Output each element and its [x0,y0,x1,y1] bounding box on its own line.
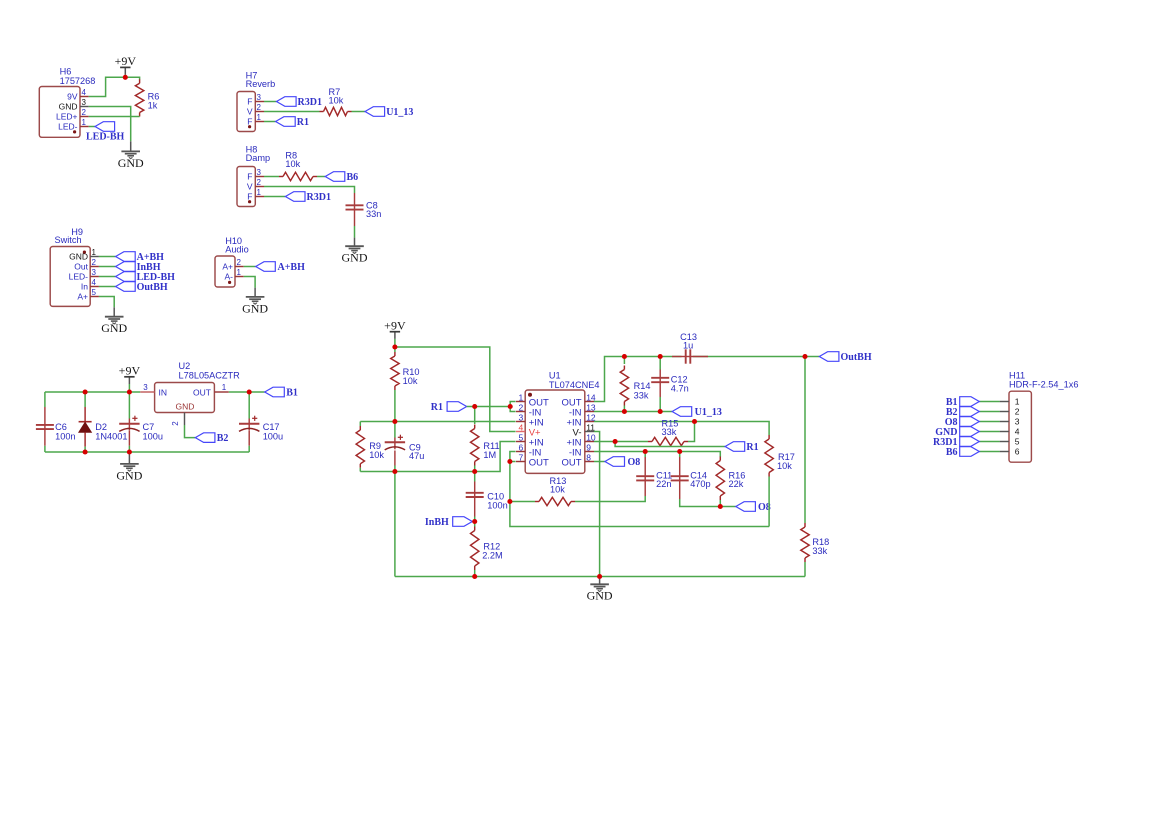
svg-text:2: 2 [237,258,242,267]
svg-text:A+: A+ [222,262,233,272]
svg-text:+9V: +9V [119,363,141,377]
svg-text:R3D1: R3D1 [298,97,322,108]
svg-text:100u: 100u [263,432,283,442]
svg-text:100n: 100n [487,501,507,511]
svg-text:B2: B2 [217,433,229,444]
svg-text:5: 5 [1015,437,1020,447]
svg-text:R14: R14 [634,381,651,391]
svg-text:OUT: OUT [529,458,549,469]
svg-text:1: 1 [257,113,262,122]
svg-text:R3D1: R3D1 [307,192,331,203]
svg-text:33n: 33n [366,209,381,219]
svg-text:1: 1 [257,188,262,197]
svg-text:O8: O8 [628,457,641,468]
svg-text:A+: A+ [77,292,88,302]
svg-text:Damp: Damp [246,153,271,163]
svg-text:3: 3 [82,98,87,107]
svg-text:OUT: OUT [193,387,211,397]
svg-text:U2: U2 [179,361,191,371]
svg-text:F: F [247,172,252,182]
svg-text:R1: R1 [431,402,443,413]
svg-text:LED-: LED- [58,122,78,132]
svg-text:1M: 1M [483,450,496,460]
svg-text:4: 4 [92,278,97,287]
svg-text:Reverb: Reverb [246,79,276,89]
svg-text:GND: GND [101,321,127,335]
svg-text:100u: 100u [143,432,163,442]
svg-text:22n: 22n [656,479,671,489]
svg-text:10k: 10k [369,450,384,460]
svg-text:2.2M: 2.2M [482,551,502,561]
svg-text:3: 3 [257,93,262,102]
svg-text:1u: 1u [683,341,693,351]
svg-text:33k: 33k [662,427,677,437]
svg-text:GND: GND [116,468,142,482]
svg-text:F: F [247,97,252,107]
svg-text:10k: 10k [285,159,300,169]
svg-text:LED-BH: LED-BH [86,132,125,143]
svg-text:GND: GND [587,589,613,603]
svg-text:D2: D2 [95,422,107,432]
svg-text:A+BH: A+BH [278,262,306,273]
svg-text:OutBH: OutBH [137,282,168,293]
svg-text:In: In [81,282,88,292]
svg-text:+9V: +9V [384,318,406,332]
svg-text:1k: 1k [148,101,158,111]
svg-text:1: 1 [237,268,242,277]
svg-text:B1: B1 [286,388,298,399]
svg-text:10k: 10k [403,376,418,386]
svg-text:Switch: Switch [55,235,82,245]
svg-text:U1_13: U1_13 [386,107,413,118]
svg-text:C7: C7 [143,422,155,432]
svg-text:V: V [247,107,253,117]
svg-text:2: 2 [82,108,87,117]
svg-text:10k: 10k [329,96,344,106]
svg-text:A-: A- [225,272,234,282]
svg-text:1: 1 [1015,397,1020,407]
svg-text:47u: 47u [409,451,424,461]
svg-text:100n: 100n [55,432,75,442]
svg-text:F: F [247,117,252,127]
svg-text:GND: GND [59,102,78,112]
svg-text:10k: 10k [550,485,565,495]
svg-text:3: 3 [143,383,148,392]
svg-text:+9V: +9V [115,54,137,68]
svg-text:1757268: 1757268 [60,76,96,86]
svg-text:R1: R1 [297,117,309,128]
svg-text:3: 3 [1015,417,1020,427]
svg-text:2: 2 [92,258,97,267]
svg-text:GND: GND [242,301,268,315]
svg-text:470p: 470p [690,479,710,489]
svg-text:B6: B6 [347,172,359,183]
svg-text:IN: IN [159,387,168,397]
svg-text:10k: 10k [777,461,792,471]
svg-text:GND: GND [118,156,144,170]
svg-text:LED+: LED+ [56,112,78,122]
svg-text:5: 5 [92,288,97,297]
svg-text:U1_13: U1_13 [695,407,722,418]
svg-text:Audio: Audio [225,245,249,255]
svg-text:2: 2 [257,178,262,187]
svg-text:GND: GND [176,401,195,411]
svg-text:InBH: InBH [425,517,449,528]
svg-text:C6: C6 [55,422,67,432]
svg-text:R1: R1 [746,442,758,453]
svg-text:LED-: LED- [69,272,89,282]
svg-text:L78L05ACZTR: L78L05ACZTR [179,371,241,381]
svg-text:2: 2 [257,103,262,112]
svg-text:1N4001: 1N4001 [95,432,127,442]
svg-text:H6: H6 [60,67,72,77]
svg-text:1: 1 [222,383,227,392]
svg-text:U1: U1 [549,371,561,381]
svg-text:TL074CNE4: TL074CNE4 [549,380,600,390]
svg-text:2: 2 [171,421,180,426]
svg-text:F: F [247,192,252,202]
svg-text:HDR-F-2.54_1x6: HDR-F-2.54_1x6 [1009,380,1078,390]
svg-text:C17: C17 [263,422,280,432]
svg-text:33k: 33k [634,391,649,401]
svg-text:OUT: OUT [561,458,581,469]
svg-text:4: 4 [1015,427,1020,437]
svg-text:6: 6 [1015,447,1020,457]
svg-text:GND: GND [342,251,368,265]
svg-text:4: 4 [82,88,87,97]
svg-text:V: V [247,182,253,192]
svg-text:1: 1 [92,248,97,257]
svg-text:Out: Out [74,262,88,272]
svg-text:2: 2 [1015,407,1020,417]
svg-text:4.7n: 4.7n [671,384,689,394]
svg-text:3: 3 [257,168,262,177]
svg-text:B6: B6 [946,447,958,458]
svg-text:22k: 22k [729,479,744,489]
svg-text:3: 3 [92,268,97,277]
svg-text:9V: 9V [67,92,78,102]
svg-text:33k: 33k [812,546,827,556]
svg-text:OutBH: OutBH [841,352,872,363]
svg-text:1: 1 [82,118,87,127]
